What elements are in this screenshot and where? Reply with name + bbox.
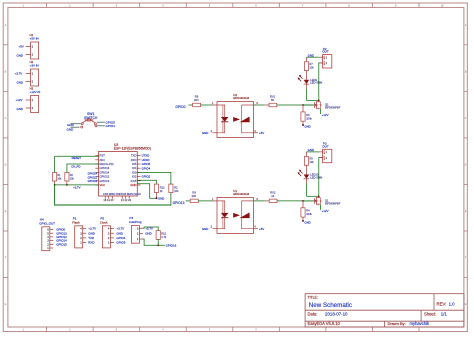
resistor R7 10k [304, 57, 314, 70]
svg-text:TITLE:: TITLE: [308, 295, 318, 299]
svg-text:1/1: 1/1 [441, 312, 448, 317]
svg-text:GPIO12: GPIO12 [56, 235, 67, 239]
svg-text:G: G [5, 304, 7, 306]
net label GPIO13 [173, 201, 191, 205]
svg-text:Flash: Flash [72, 220, 80, 224]
svg-text:SWITCH: SWITCH [84, 116, 98, 120]
svg-text:ESP-12F(ESP8266MOD): ESP-12F(ESP8266MOD) [114, 147, 151, 151]
svg-text:+5V: +5V [259, 131, 264, 135]
wire left loop [55, 185, 171, 205]
resistor R2b 10k pull [137, 172, 179, 205]
transistor Q2 IRF540NPBF [314, 101, 340, 110]
svg-text:GND: GND [304, 125, 310, 129]
svg-text:SW1: SW1 [87, 112, 94, 116]
resistor RV1 65 [253, 95, 313, 107]
svg-text:P5: P5 [100, 217, 104, 221]
svg-text:RXD: RXD [88, 241, 94, 245]
svg-text:GPIO13: GPIO13 [173, 201, 185, 205]
connector H4 GPIO_OUT [39, 218, 67, 251]
svg-text:+3.7V: +3.7V [15, 72, 23, 76]
resistor R4 100k [301, 201, 313, 221]
LED LED9 LED-5MM [298, 71, 323, 101]
ground below R6 [302, 124, 311, 129]
svg-text:GND: GND [158, 197, 164, 201]
net +12V at Q2 source [321, 109, 329, 117]
svg-text:AutoProg: AutoProg [129, 220, 142, 224]
svg-text:P1: P1 [73, 217, 77, 221]
switch SW1 [67, 112, 116, 131]
svg-text:+5V IN: +5V IN [30, 36, 39, 40]
svg-text:GPIO5: GPIO5 [116, 241, 125, 245]
svg-text:GPIO5: GPIO5 [106, 120, 116, 124]
svg-text:GPIO13: GPIO13 [56, 231, 67, 235]
ground below R4 [302, 220, 311, 225]
wire RESET net [55, 156, 99, 160]
svg-text:P4: P4 [129, 216, 133, 220]
svg-text:+5V: +5V [259, 227, 264, 231]
svg-text:New Schematic: New Schematic [309, 302, 352, 309]
svg-text:TXD: TXD [88, 236, 94, 240]
net +5V at U1 pin 4 [253, 225, 264, 231]
wire GND to P3 pin1 [306, 148, 318, 152]
resistor R13 1k [137, 180, 165, 198]
svg-text:H4: H4 [40, 218, 44, 222]
svg-text:GND: GND [17, 54, 24, 58]
svg-text:GND: GND [67, 127, 75, 131]
resistor R6 100k [301, 105, 313, 125]
svg-text:GPIO4: GPIO4 [116, 236, 125, 240]
resistor R8 200 [193, 95, 217, 107]
svg-text:RESET: RESET [72, 156, 82, 160]
svg-text:GPIO5: GPIO5 [142, 162, 151, 166]
connector P1 Flash [72, 217, 96, 248]
LED LED10 LED-5MM [298, 165, 323, 196]
optocoupler U2 MOC3021M [217, 93, 253, 137]
svg-text:2018-07-10: 2018-07-10 [325, 312, 348, 317]
svg-text:GND: GND [308, 148, 315, 152]
svg-text:GND: GND [308, 53, 315, 57]
svg-text:OUT: OUT [322, 144, 329, 148]
resistor R5 10k [304, 152, 314, 165]
resistor R1 10k [53, 156, 63, 185]
resistor RV2 16 [254, 191, 314, 203]
connector P4 AutoProg [129, 216, 153, 243]
ground at U2 pin 2 [202, 129, 217, 135]
svg-text:MOC3021M: MOC3021M [233, 192, 249, 196]
svg-text:GPIO0: GPIO0 [56, 228, 65, 232]
svg-text:1.0: 1.0 [449, 302, 456, 307]
svg-text:GPIO14: GPIO14 [56, 239, 67, 243]
connector P5 Clock [100, 217, 126, 248]
ground flag near R13 [137, 184, 164, 201]
IC U3 ESP-12F body [95, 143, 151, 202]
svg-text:+12V: +12V [322, 113, 329, 117]
svg-text:REV:: REV: [437, 302, 447, 307]
svg-text:GND: GND [202, 227, 209, 231]
svg-text:GPIO16: GPIO16 [166, 243, 177, 247]
optocoupler U1 MOC3021M [217, 189, 253, 233]
wire drain of Q1 [318, 158, 323, 198]
svg-text:Date:: Date: [308, 312, 318, 317]
resistor R9 200 [190, 191, 217, 203]
svg-text:+12V: +12V [322, 209, 329, 213]
svg-text:Sheet:: Sheet: [424, 312, 436, 317]
wire drain of Q2 [318, 63, 323, 102]
ground at U1 pin 2 [202, 225, 217, 231]
connector H2 +3V IN [15, 60, 39, 86]
svg-text:GND: GND [17, 81, 24, 85]
wire gate of Q1 [302, 200, 314, 202]
net labels on U3 right pins [142, 154, 151, 179]
svg-text:myhavchik: myhavchik [410, 321, 431, 326]
svg-text:GND: GND [202, 131, 209, 135]
svg-text:GND: GND [88, 231, 95, 235]
resistor R2 10k [65, 164, 99, 185]
svg-text:Drawn By:: Drawn By: [388, 321, 406, 326]
title block [305, 294, 464, 327]
svg-text:GPIO2: GPIO2 [142, 175, 151, 179]
connector P2 OUT [319, 47, 332, 68]
svg-text:EasyEDA V5.6.10: EasyEDA V5.6.10 [308, 321, 341, 326]
net +5V at U2 pin 4 [253, 129, 264, 135]
svg-text:G: G [465, 304, 467, 306]
svg-text:GPIO4: GPIO4 [142, 166, 151, 170]
svg-text:MOC3021M: MOC3021M [233, 96, 249, 100]
wire GND to P2 pin1 [306, 53, 318, 57]
svg-text:+3V IN: +3V IN [30, 63, 39, 67]
svg-text:GND: GND [67, 123, 75, 127]
connector H3 +12V IN [16, 86, 41, 112]
svg-text:GND: GND [304, 221, 310, 225]
svg-text:+5V: +5V [19, 45, 24, 49]
resistor R12 4.7k with GPIO16 wire [143, 227, 177, 247]
svg-text:+12V: +12V [16, 98, 23, 102]
svg-text:OUT: OUT [322, 50, 329, 54]
svg-text:UTXD: UTXD [142, 154, 150, 158]
svg-text:URXD: URXD [142, 158, 150, 162]
transistor Q1 IRF540NPBF [314, 197, 340, 206]
connector P3 OUT [319, 142, 332, 163]
net +12V at Q1 source [321, 205, 329, 213]
svg-text:+12V IN: +12V IN [30, 90, 41, 94]
svg-text:GND: GND [145, 232, 152, 236]
svg-text:GND: GND [17, 107, 24, 111]
wire gate of Q2 [302, 104, 314, 106]
net labels on U3 left pins [88, 172, 98, 183]
net label GPIO0 [175, 105, 192, 109]
svg-text:Clock: Clock [100, 220, 108, 224]
wire +3.7V rail [54, 184, 99, 189]
svg-text:+3.7V: +3.7V [116, 227, 124, 231]
connector H1 +5V IN [17, 33, 39, 59]
svg-text:GPIO4: GPIO4 [106, 124, 116, 128]
svg-text:GPIO0: GPIO0 [175, 105, 185, 109]
svg-text:GND: GND [116, 231, 123, 235]
svg-text:GPIO_OUT: GPIO_OUT [39, 221, 55, 225]
svg-text:GPIO15: GPIO15 [56, 242, 67, 246]
svg-text:+3.7V: +3.7V [73, 185, 81, 189]
svg-text:+3.7V: +3.7V [88, 227, 96, 231]
